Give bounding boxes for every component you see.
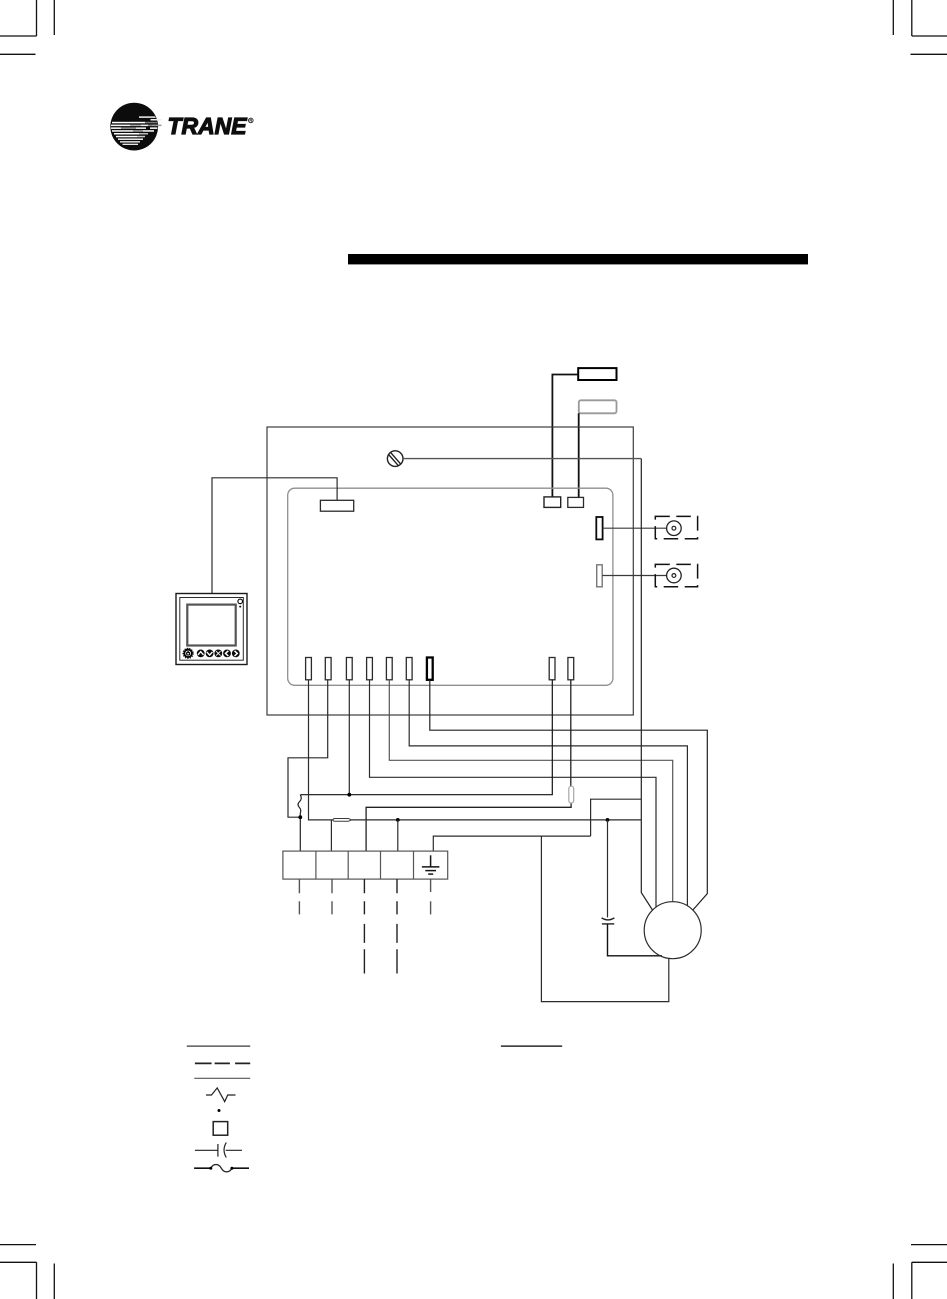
thermistor squiggle to terminal block 1 [298,794,301,851]
terminal T7 (heavy) [427,658,433,680]
junction dot T3 line [347,793,351,797]
capacitor C1 wire lower to motor [608,924,663,956]
legend: junction dot [218,1109,221,1112]
fuse F2 (inline, vertical) [569,786,574,803]
sensor S1 (dashed box with grommet) [655,516,697,538]
wire from screw to motor line [403,458,641,460]
wire T9 through fuse to terminal block 3 [366,680,571,851]
thermostat buttons [183,648,240,658]
sensor S2 (dashed box with grommet) [655,564,697,586]
capacitor C1 wire upper [607,820,609,918]
wire F to sensor S2 [602,575,666,577]
terminal E (right side upper) [596,517,602,539]
wire terminal block 4 up [397,820,399,851]
field wiring stubs below TB1 [299,879,430,973]
legend: capacitor symbol [195,1143,242,1158]
connector plug P2 [579,400,617,413]
wire ground loop upper [591,799,642,836]
wire T6 to motor [409,680,687,906]
terminal block TB1 [283,851,448,879]
bottom terminals T1-T7 [306,658,412,680]
legend: thermistor zigzag [206,1088,236,1102]
wire E to sensor S1 [603,527,667,529]
screw terminal (ground screw) [387,451,403,467]
legend underline (right) [501,1045,562,1047]
control board inner module [288,488,613,685]
junction dot capacitor branch [606,818,610,822]
wire motor return [541,836,668,1002]
wire T4 to motor [370,680,657,908]
TRANE logo globe [110,103,162,151]
wire T3 down to sensor-common line [348,680,350,795]
wire from P1 to terminal C [552,375,578,498]
terminal D [568,497,584,507]
connector plug P1 (top) [578,368,616,380]
legend: dashed line (field wiring) [195,1062,250,1064]
wire ground cell to loop [433,836,590,851]
legend: square (connector) [213,1122,228,1136]
legend: thin line [194,1077,250,1079]
legend: solid line (factory wiring) [187,1045,250,1047]
junction dot thermistor [298,815,302,819]
motor M1 [644,902,701,959]
thermostat (wall control) [176,594,247,665]
motor feed vertical line [641,459,652,910]
control board outer box [267,427,633,715]
svg-text:TRANE: TRANE [168,113,248,139]
title rule bar [348,254,808,264]
wire T1 through fuse to motor line [309,680,642,820]
wire from P2 to terminal D [578,413,580,497]
TRANE logo wordmark [168,113,254,139]
junction dot cell4 [396,818,400,822]
ground symbol in TB1 [422,855,440,874]
wire T5 to motor [389,680,672,902]
wire T7 to motor [430,680,708,910]
terminal F (right side lower) [597,565,603,587]
legend: fuse link symbol [194,1165,249,1172]
terminal C [544,497,561,508]
wire thermostat to terminal G [212,478,337,594]
terminal G (top tab) [320,500,353,511]
wire T8 to sensor-common line [301,680,552,795]
capacitor C1 [602,918,615,924]
wire terminal block 2 up [330,821,332,852]
terminals T8 T9 [549,658,574,680]
wire T2 jog to thermistor branch [288,680,328,817]
fuse F1 (inline, horizontal) [333,819,352,822]
